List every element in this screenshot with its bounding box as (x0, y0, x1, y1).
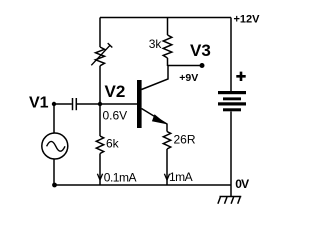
svg-text:+12V: +12V (234, 13, 261, 25)
svg-text:0.1mA: 0.1mA (104, 171, 137, 185)
svg-text:0.6V: 0.6V (103, 108, 128, 122)
svg-text:V1: V1 (29, 95, 49, 112)
svg-text:26R: 26R (174, 132, 196, 146)
svg-text:0V: 0V (235, 177, 249, 191)
svg-text:6k: 6k (106, 137, 120, 151)
svg-text:V3: V3 (190, 41, 211, 60)
svg-text:3k: 3k (149, 37, 163, 51)
svg-text:1mA: 1mA (169, 170, 193, 184)
svg-text:+9V: +9V (179, 72, 198, 84)
svg-text:V2: V2 (105, 82, 126, 101)
